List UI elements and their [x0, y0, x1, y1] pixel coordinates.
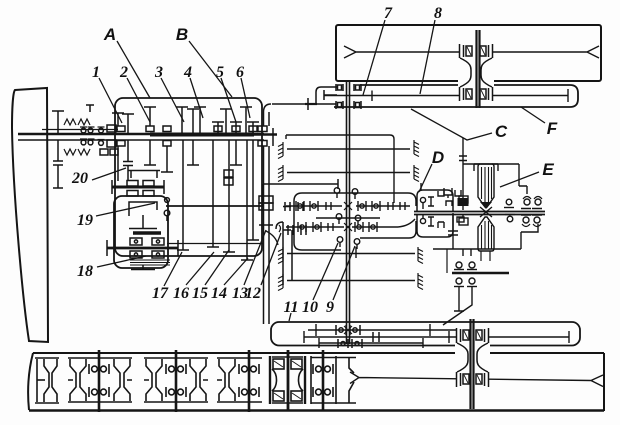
- svg-text:16: 16: [173, 285, 189, 302]
- svg-text:1: 1: [92, 64, 100, 81]
- svg-text:9: 9: [326, 299, 334, 316]
- svg-text:C: C: [495, 122, 508, 141]
- svg-text:15: 15: [192, 285, 208, 302]
- svg-text:2: 2: [119, 64, 128, 81]
- svg-text:5: 5: [216, 64, 224, 81]
- svg-text:F: F: [547, 119, 558, 138]
- svg-text:19: 19: [77, 212, 93, 229]
- svg-text:B: B: [176, 25, 188, 44]
- svg-text:3: 3: [154, 64, 163, 81]
- svg-text:12: 12: [245, 285, 261, 302]
- svg-text:17: 17: [152, 285, 169, 302]
- svg-text:10: 10: [302, 299, 318, 316]
- svg-text:14: 14: [211, 285, 227, 302]
- svg-text:4: 4: [183, 64, 192, 81]
- svg-text:E: E: [542, 160, 554, 179]
- svg-text:20: 20: [71, 170, 88, 187]
- svg-text:A: A: [103, 25, 116, 44]
- svg-text:7: 7: [384, 5, 393, 22]
- svg-text:6: 6: [236, 64, 244, 81]
- svg-text:8: 8: [434, 5, 442, 22]
- svg-text:11: 11: [283, 299, 298, 316]
- svg-text:D: D: [432, 148, 444, 167]
- svg-text:18: 18: [77, 263, 93, 280]
